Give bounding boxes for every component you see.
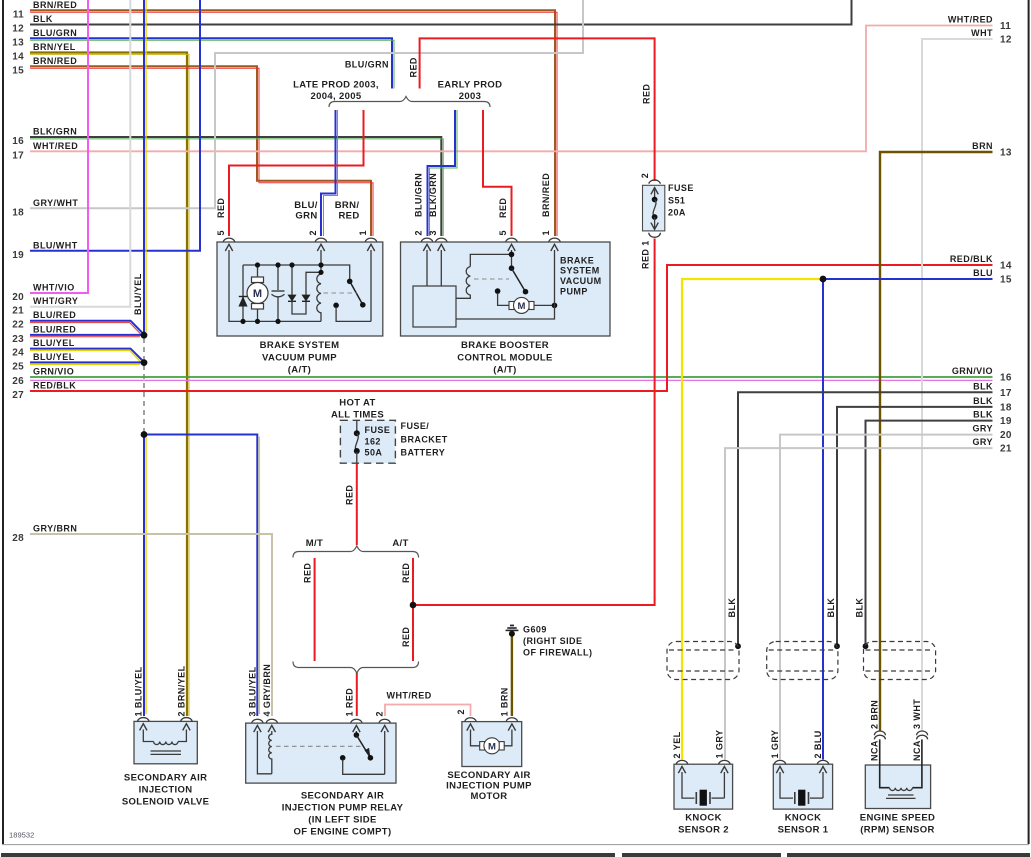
svg-text:S51: S51 (668, 195, 685, 205)
svg-text:BLU/RED: BLU/RED (33, 324, 76, 334)
svg-text:RED: RED (303, 563, 313, 583)
svg-text:BLU/YEL: BLU/YEL (133, 273, 143, 315)
svg-text:GRY: GRY (972, 437, 993, 447)
svg-text:SECONDARY AIR: SECONDARY AIR (301, 790, 384, 801)
svg-text:(RPM) SENSOR: (RPM) SENSOR (860, 824, 934, 835)
svg-text:1 GRY: 1 GRY (770, 730, 780, 759)
svg-text:ENGINE SPEED: ENGINE SPEED (860, 812, 935, 823)
svg-text:50A: 50A (365, 448, 383, 458)
svg-text:BRAKE: BRAKE (560, 255, 594, 265)
svg-text:17: 17 (12, 150, 24, 161)
svg-text:SYSTEM: SYSTEM (560, 266, 600, 276)
svg-text:20: 20 (1000, 430, 1012, 441)
svg-text:BLK/GRN: BLK/GRN (33, 127, 77, 137)
svg-text:OF ENGINE COMPT): OF ENGINE COMPT) (294, 827, 392, 838)
svg-text:17: 17 (1000, 388, 1012, 399)
svg-text:5: 5 (498, 230, 508, 235)
svg-text:14: 14 (12, 52, 24, 63)
svg-text:RED: RED (216, 198, 226, 218)
svg-text:BRAKE BOOSTER: BRAKE BOOSTER (461, 340, 549, 351)
svg-text:BLK: BLK (973, 381, 993, 391)
svg-text:21: 21 (12, 306, 24, 317)
svg-text:2: 2 (375, 711, 385, 716)
svg-text:SECONDARY AIR: SECONDARY AIR (447, 770, 530, 781)
svg-text:2003: 2003 (459, 91, 482, 102)
svg-text:19: 19 (1000, 416, 1012, 427)
svg-text:BLK: BLK (973, 396, 993, 406)
svg-text:3: 3 (428, 230, 438, 235)
svg-text:11: 11 (13, 9, 24, 20)
svg-text:12: 12 (1000, 35, 1012, 46)
svg-text:15: 15 (12, 65, 24, 76)
svg-text:BLU/YEL: BLU/YEL (33, 338, 75, 348)
svg-text:(RIGHT SIDE: (RIGHT SIDE (523, 636, 582, 646)
svg-text:16: 16 (1000, 373, 1012, 384)
svg-text:RED 1: RED 1 (640, 240, 650, 269)
svg-text:2: 2 (414, 230, 424, 235)
svg-text:2 BLU: 2 BLU (813, 730, 823, 758)
svg-text:BLU/WHT: BLU/WHT (33, 240, 78, 250)
svg-text:2 BRN: 2 BRN (870, 700, 880, 729)
svg-text:VACUUM: VACUUM (560, 276, 602, 286)
svg-text:RED: RED (642, 84, 652, 104)
svg-text:BLK: BLK (33, 14, 53, 24)
svg-text:VACUUM PUMP: VACUUM PUMP (262, 353, 337, 364)
svg-text:1 GRY: 1 GRY (714, 730, 724, 759)
svg-text:BRN/RED: BRN/RED (541, 173, 551, 217)
svg-text:14: 14 (1000, 261, 1012, 272)
svg-text:SENSOR 2: SENSOR 2 (678, 824, 729, 835)
svg-text:BLU/YEL: BLU/YEL (33, 352, 75, 362)
svg-text:GRY/BRN: GRY/BRN (33, 524, 77, 534)
svg-text:BLK: BLK (727, 598, 737, 618)
svg-text:RED/BLK: RED/BLK (950, 254, 993, 264)
svg-text:11: 11 (1000, 21, 1011, 32)
svg-text:M: M (488, 741, 496, 752)
svg-text:2004, 2005: 2004, 2005 (310, 91, 361, 102)
svg-text:NCA: NCA (870, 740, 880, 761)
svg-text:GRN: GRN (295, 211, 317, 222)
svg-text:27: 27 (12, 390, 24, 401)
svg-text:19: 19 (12, 250, 24, 261)
svg-text:BLK: BLK (855, 598, 865, 618)
svg-text:1: 1 (358, 230, 368, 235)
svg-text:5: 5 (216, 230, 226, 235)
svg-text:MOTOR: MOTOR (471, 791, 508, 802)
svg-text:21: 21 (1000, 444, 1012, 455)
svg-text:SECONDARY AIR: SECONDARY AIR (124, 773, 207, 784)
svg-text:26: 26 (12, 376, 24, 387)
svg-text:(IN LEFT SIDE: (IN LEFT SIDE (308, 815, 376, 826)
svg-text:GRY: GRY (972, 424, 993, 434)
svg-text:BRN/RED: BRN/RED (33, 56, 77, 66)
svg-text:BLU/GRN: BLU/GRN (345, 60, 389, 70)
svg-text:BLU/: BLU/ (294, 200, 318, 211)
svg-text:KNOCK: KNOCK (685, 812, 722, 823)
svg-text:ALL TIMES: ALL TIMES (331, 410, 384, 421)
svg-text:24: 24 (12, 348, 24, 359)
svg-text:M: M (518, 301, 526, 312)
svg-text:13: 13 (1000, 148, 1012, 159)
svg-text:2 YEL: 2 YEL (672, 731, 682, 758)
svg-text:RED: RED (401, 563, 411, 583)
svg-text:NCA: NCA (912, 740, 922, 761)
svg-text:BRN/YEL: BRN/YEL (33, 42, 76, 52)
svg-text:2 BRN/YEL: 2 BRN/YEL (176, 665, 186, 716)
svg-text:22: 22 (12, 320, 24, 331)
svg-text:CONTROL MODULE: CONTROL MODULE (457, 353, 553, 364)
svg-text:4 GRY/BRN: 4 GRY/BRN (262, 664, 272, 717)
svg-text:PUMP: PUMP (560, 286, 588, 296)
svg-text:RED: RED (338, 211, 359, 222)
svg-text:RED/BLK: RED/BLK (33, 381, 76, 391)
svg-text:A/T: A/T (392, 538, 408, 549)
svg-text:20: 20 (12, 292, 24, 303)
svg-text:FUSE: FUSE (668, 183, 694, 193)
svg-text:12: 12 (12, 24, 24, 35)
svg-text:M/T: M/T (306, 538, 323, 549)
svg-text:WHT/GRY: WHT/GRY (33, 296, 78, 306)
svg-text:SENSOR 1: SENSOR 1 (778, 824, 829, 835)
svg-text:RED: RED (498, 198, 508, 218)
svg-text:18: 18 (1000, 402, 1012, 413)
svg-text:1 BRN: 1 BRN (500, 687, 510, 716)
svg-text:LATE PROD 2003,: LATE PROD 2003, (293, 80, 379, 91)
svg-text:BLU/RED: BLU/RED (33, 310, 76, 320)
svg-text:28: 28 (12, 533, 24, 544)
svg-text:BRACKET: BRACKET (401, 435, 448, 445)
svg-text:BATTERY: BATTERY (401, 448, 446, 458)
svg-text:2: 2 (308, 230, 318, 235)
svg-text:BLK: BLK (973, 410, 993, 420)
svg-text:1 BLU/YEL: 1 BLU/YEL (133, 666, 143, 716)
svg-text:13: 13 (12, 37, 24, 48)
svg-text:WHT: WHT (971, 28, 993, 38)
svg-text:GRY/WHT: GRY/WHT (33, 198, 78, 208)
svg-text:189532: 189532 (9, 831, 34, 840)
svg-text:BLK: BLK (826, 598, 836, 618)
svg-text:FUSE/: FUSE/ (401, 421, 430, 431)
svg-text:WHT/RED: WHT/RED (387, 691, 432, 701)
svg-text:BLU: BLU (973, 268, 993, 278)
svg-text:WHT/RED: WHT/RED (33, 141, 78, 151)
svg-text:2: 2 (640, 173, 650, 178)
svg-text:KNOCK: KNOCK (785, 812, 822, 823)
svg-text:INJECTION PUMP: INJECTION PUMP (446, 781, 532, 792)
svg-text:WHT/RED: WHT/RED (948, 15, 993, 25)
svg-text:INJECTION PUMP RELAY: INJECTION PUMP RELAY (282, 802, 404, 813)
svg-text:18: 18 (12, 208, 24, 219)
svg-text:BRN/RED: BRN/RED (33, 0, 77, 10)
svg-text:BLK/GRN: BLK/GRN (428, 173, 438, 217)
svg-text:RED: RED (345, 485, 355, 505)
svg-text:162: 162 (365, 437, 381, 447)
svg-text:BRN/: BRN/ (335, 200, 360, 211)
svg-text:WHT/VIO: WHT/VIO (33, 283, 75, 293)
svg-text:2: 2 (456, 709, 466, 714)
svg-text:(A/T): (A/T) (288, 365, 311, 376)
svg-text:1 RED: 1 RED (345, 688, 355, 717)
svg-text:1: 1 (541, 230, 551, 235)
svg-text:M: M (253, 288, 262, 300)
svg-text:G609: G609 (523, 625, 547, 635)
svg-text:16: 16 (12, 136, 24, 147)
svg-text:BLU/GRN: BLU/GRN (33, 28, 77, 38)
svg-text:23: 23 (12, 334, 24, 345)
svg-text:25: 25 (12, 361, 24, 372)
svg-text:BLU/GRN: BLU/GRN (414, 173, 424, 217)
svg-text:SOLENOID VALVE: SOLENOID VALVE (122, 797, 209, 808)
svg-text:EARLY PROD: EARLY PROD (438, 80, 503, 91)
svg-text:HOT AT: HOT AT (339, 398, 375, 409)
svg-text:RED: RED (409, 57, 419, 77)
svg-text:20A: 20A (668, 207, 686, 217)
svg-text:15: 15 (1000, 275, 1012, 286)
svg-text:3 BLU/YEL: 3 BLU/YEL (247, 666, 257, 716)
svg-text:3 WHT: 3 WHT (912, 699, 922, 729)
svg-text:INJECTION: INJECTION (139, 785, 193, 796)
svg-text:OF FIREWALL): OF FIREWALL) (523, 648, 592, 658)
svg-text:RED: RED (401, 627, 411, 647)
svg-text:(A/T): (A/T) (493, 365, 516, 376)
svg-text:BRAKE SYSTEM: BRAKE SYSTEM (260, 340, 340, 351)
svg-text:GRN/VIO: GRN/VIO (33, 367, 74, 377)
svg-text:BRN: BRN (972, 141, 993, 151)
svg-text:FUSE: FUSE (365, 425, 391, 435)
svg-text:GRN/VIO: GRN/VIO (952, 366, 993, 376)
